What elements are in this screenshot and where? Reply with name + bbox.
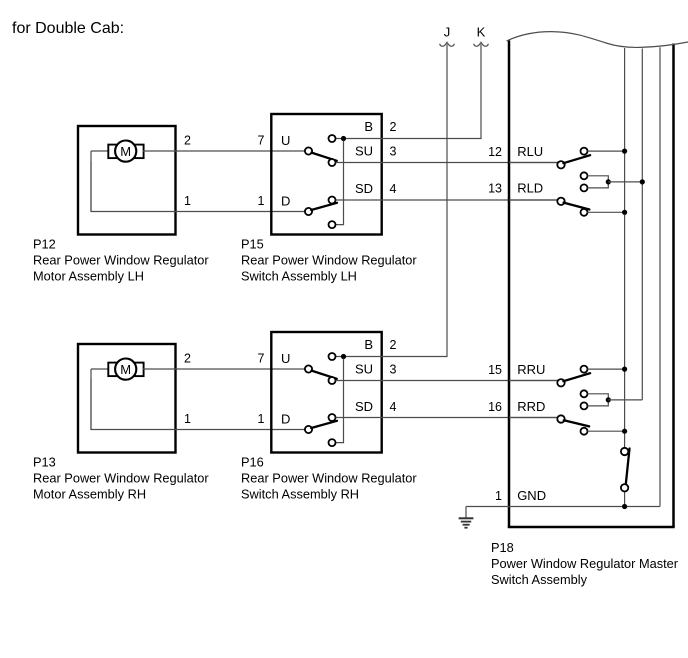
wire pin12 RLU: [509, 162, 558, 164]
svg-text:7: 7: [258, 134, 265, 148]
switch RRU pole: [557, 379, 564, 386]
contact SD (P16): [329, 414, 336, 421]
contact SD (P15): [329, 197, 336, 204]
svg-text:7: 7: [258, 352, 265, 366]
svg-text:Motor Assembly RH: Motor Assembly RH: [33, 486, 146, 501]
wire SD (P15 pin4) to P18 pin13: [336, 199, 558, 201]
bus line A (vertical, x=624.6): [624, 48, 626, 448]
master switch box P18 right edge: [672, 44, 675, 528]
motor M (P13): [91, 359, 144, 430]
svg-text:2: 2: [184, 134, 191, 148]
switch RRU blade: [563, 373, 590, 381]
motor assembly box P13: [78, 344, 176, 453]
wire pin15 RRU: [509, 380, 558, 382]
wire P12 pin2 to P15 pin7 (U): [143, 150, 306, 152]
svg-text:Rear Power Window Regulator: Rear Power Window Regulator: [241, 470, 417, 485]
svg-text:RLU: RLU: [517, 144, 543, 159]
connector symbol J: [440, 42, 455, 46]
svg-text:4: 4: [390, 400, 397, 414]
switch RRD pole: [557, 415, 564, 422]
svg-text:B: B: [364, 337, 373, 352]
wire pin13 RLD: [509, 199, 558, 201]
contact pair RL middle: [581, 172, 588, 179]
svg-text:U: U: [281, 351, 290, 366]
switch D pole (P15): [305, 208, 312, 215]
wire SU (P15 pin3) to P18 pin12: [336, 162, 558, 164]
connector symbol K: [474, 42, 489, 46]
svg-text:K: K: [477, 25, 486, 40]
node B contact (P16): [336, 356, 347, 358]
switch D pole (P16): [305, 426, 312, 433]
bus wire B to bottom contact (P15): [335, 141, 343, 225]
svg-text:Switch Assembly: Switch Assembly: [491, 572, 588, 587]
svg-text:1: 1: [258, 194, 265, 208]
svg-text:Switch Assembly RH: Switch Assembly RH: [241, 486, 359, 501]
svg-text:12: 12: [488, 145, 502, 159]
svg-text:Rear Power Window Regulator: Rear Power Window Regulator: [33, 252, 209, 267]
motor assembly box P12: [78, 126, 176, 235]
junction dot RRD/bus A: [622, 429, 627, 434]
svg-text:P16: P16: [241, 454, 264, 469]
wire RRD contact to bus A: [588, 430, 625, 432]
svg-text:3: 3: [390, 363, 397, 377]
bottom contact circle (P16): [329, 439, 336, 446]
svg-text:1: 1: [258, 412, 265, 426]
contact RRD: [581, 428, 588, 435]
svg-text:RRU: RRU: [517, 362, 545, 377]
wire pin1 GND: [466, 506, 660, 508]
wire RL middle to bus B: [608, 181, 642, 183]
switch U pole (P15): [305, 147, 312, 154]
svg-text:U: U: [281, 133, 290, 148]
contact RLU: [581, 148, 588, 155]
svg-text:J: J: [444, 25, 451, 40]
svg-text:SD: SD: [355, 181, 373, 196]
switch GND blade (vertical): [626, 449, 630, 486]
svg-text:D: D: [281, 412, 290, 427]
wire RLU contact to bus A: [588, 150, 625, 152]
svg-text:Motor Assembly LH: Motor Assembly LH: [33, 268, 144, 283]
svg-text:1: 1: [184, 194, 191, 208]
svg-text:13: 13: [488, 182, 502, 196]
junction dot RL middle/bus B: [640, 179, 645, 184]
svg-text:Power Window Regulator Master: Power Window Regulator Master: [491, 556, 679, 571]
motor M (P12): [91, 141, 144, 212]
svg-text:RLD: RLD: [517, 181, 543, 196]
wire P13 pin1 to P16 pin1 (D): [91, 379, 305, 430]
svg-text:P12: P12: [33, 236, 56, 251]
wire P13 pin2 to P16 pin7 (U): [143, 368, 306, 370]
svg-text:RRD: RRD: [517, 399, 545, 414]
wire SD (P16 pin4) to P18 pin16: [336, 417, 558, 419]
contact RRU: [581, 366, 588, 373]
svg-text:2: 2: [184, 352, 191, 366]
contact pair RR middle: [581, 390, 588, 397]
master switch box P18 bottom edge: [508, 526, 675, 529]
link RL middle contacts: [588, 176, 609, 188]
svg-text:M: M: [120, 144, 131, 159]
wire RRU contact to bus A: [588, 368, 625, 370]
svg-text:M: M: [120, 362, 131, 377]
switch RLD pole: [557, 198, 564, 205]
switch GND bottom contact: [621, 484, 628, 491]
junction dot RLD/bus A: [622, 210, 627, 215]
junction dot GND/bus A: [622, 504, 627, 509]
svg-text:Switch Assembly LH: Switch Assembly LH: [241, 268, 357, 283]
switch assembly box P15: [271, 114, 381, 235]
wire RLD contact to bus A: [588, 211, 625, 213]
contact SU (P16): [329, 377, 336, 384]
svg-text:2: 2: [390, 120, 397, 134]
svg-text:1: 1: [184, 412, 191, 426]
svg-text:P15: P15: [241, 236, 264, 251]
master switch box P18 left edge: [508, 41, 511, 528]
svg-text:15: 15: [488, 363, 502, 377]
switch U blade (P15): [312, 153, 337, 161]
svg-text:P18: P18: [491, 540, 514, 555]
svg-text:B: B: [364, 119, 373, 134]
wavy top edge of P18: [507, 32, 688, 48]
wire pin16 RRD: [509, 417, 558, 419]
switch assembly box P16: [271, 332, 381, 453]
svg-text:2: 2: [390, 338, 397, 352]
switch RLU blade: [563, 155, 590, 163]
bus line B (vertical, x=642.3): [641, 49, 643, 400]
svg-text:16: 16: [488, 400, 502, 414]
junction dot RRU/bus A: [622, 367, 627, 372]
svg-text:SD: SD: [355, 399, 373, 414]
svg-text:Rear Power Window Regulator: Rear Power Window Regulator: [33, 470, 209, 485]
wire SU (P16 pin3) to P18 pin15: [336, 380, 558, 382]
svg-text:GND: GND: [517, 488, 546, 503]
svg-text:1: 1: [495, 489, 502, 503]
svg-text:SU: SU: [355, 362, 373, 377]
svg-text:P13: P13: [33, 454, 56, 469]
svg-text:for Double Cab:: for Double Cab:: [12, 20, 124, 37]
bottom contact circle (P15): [329, 221, 336, 228]
switch RLU pole: [557, 161, 564, 168]
node B contact (P15): [336, 138, 347, 140]
junction dot B (P15): [341, 136, 346, 141]
wire B (P16 pin2) to connector J: [346, 44, 447, 356]
junction dot RLU/bus A: [622, 149, 627, 154]
switch RLD blade: [564, 203, 590, 210]
switch RRD blade: [564, 420, 589, 426]
ground symbol: [459, 507, 474, 528]
junction dot B (P16): [341, 354, 346, 359]
contact SU (P15): [329, 159, 336, 166]
wire P12 pin1 to P15 pin1 (D): [91, 161, 305, 212]
wire B (P15 pin2) to connector K: [346, 44, 481, 138]
switch D blade (P15): [311, 203, 337, 210]
bus wire B to bottom contact (P16): [335, 359, 343, 443]
switch U pole (P16): [305, 365, 312, 372]
link RR middle contacts: [588, 394, 609, 406]
junction dot RL middle: [606, 179, 611, 184]
switch U blade (P16): [312, 371, 337, 379]
svg-text:4: 4: [390, 182, 397, 196]
svg-text:Rear Power Window Regulator: Rear Power Window Regulator: [241, 252, 417, 267]
svg-text:3: 3: [390, 145, 397, 159]
contact RLD: [581, 209, 588, 216]
junction dot RR middle: [606, 397, 611, 402]
svg-text:D: D: [281, 194, 290, 209]
wire RR middle to bus B: [608, 399, 642, 401]
bus line C (vertical, x=660): [659, 47, 661, 506]
switch D blade (P16): [311, 421, 337, 428]
switch GND top contact: [621, 448, 628, 455]
svg-text:SU: SU: [355, 144, 373, 159]
